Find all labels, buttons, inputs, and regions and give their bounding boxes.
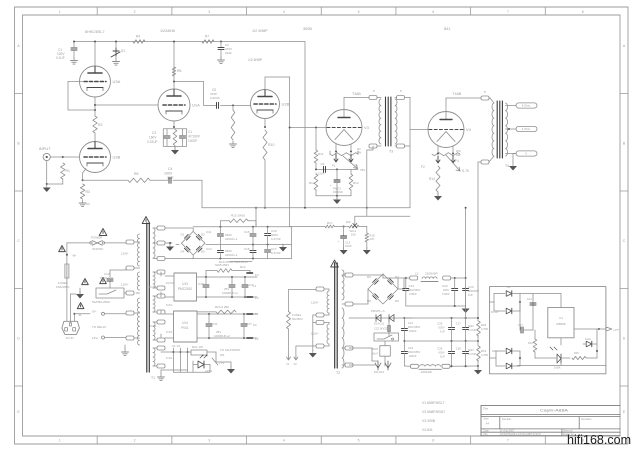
svg-text:C15: C15: [244, 230, 250, 234]
svg-text:160V: 160V: [164, 172, 173, 176]
svg-text:Number: Number: [502, 417, 511, 421]
svg-text:F4: F4: [255, 273, 259, 277]
svg-text:V1: V1: [286, 362, 290, 366]
svg-text:5: 5: [358, 10, 360, 14]
svg-text:47/160V: 47/160V: [188, 135, 201, 139]
svg-text:R13: R13: [353, 181, 359, 185]
svg-text:630V: 630V: [439, 326, 445, 330]
svg-text:C13: C13: [206, 247, 212, 251]
svg-text:1UF: 1UF: [468, 293, 473, 297]
svg-text:0.1UF: 0.1UF: [56, 56, 65, 60]
svg-text:R26: R26: [574, 351, 579, 355]
svg-text:250V-103: 250V-103: [100, 276, 113, 280]
svg-text:5W: 5W: [456, 153, 461, 157]
svg-text:C9: C9: [321, 162, 325, 166]
svg-text:W1: W1: [220, 353, 225, 357]
svg-text:V4.841: V4.841: [422, 428, 433, 432]
svg-text:1/2A6H8: 1/2A6H8: [160, 29, 175, 33]
svg-text:7: 7: [507, 10, 509, 14]
svg-text:INPUT: INPUT: [39, 146, 52, 151]
svg-text:A2: A2: [86, 202, 90, 206]
svg-text:400V/450V: 400V/450V: [408, 351, 421, 354]
svg-text:C1?: C1?: [456, 322, 461, 326]
svg-text:FF-18: FF-18: [491, 310, 498, 314]
svg-text:P041: P041: [181, 326, 189, 330]
svg-text:R5: R5: [134, 172, 139, 176]
svg-text:V2: V2: [294, 362, 298, 366]
svg-text:6H9C/6SL7: 6H9C/6SL7: [85, 30, 105, 34]
svg-text:TO ADJ/16SN7: TO ADJ/16SN7: [220, 348, 241, 352]
svg-text:10K: 10K: [351, 233, 356, 237]
svg-text:R1: R1: [66, 169, 71, 173]
svg-text:0.22UF: 0.22UF: [210, 96, 220, 100]
svg-text:ON/OFF: ON/OFF: [92, 247, 103, 251]
svg-text:470UF: 470UF: [442, 292, 450, 296]
svg-text:+: +: [330, 183, 332, 187]
svg-text:110V-: 110V-: [121, 283, 129, 287]
svg-text:R16: R16: [528, 341, 533, 345]
svg-text:220UF+1: 220UF+1: [225, 253, 238, 257]
svg-text:PR30?+ A: PR30?+ A: [371, 309, 385, 313]
svg-text:D8: D8: [367, 299, 371, 303]
svg-text:300B: 300B: [303, 27, 312, 31]
svg-text:7: 7: [507, 439, 509, 443]
svg-text:R10: R10: [268, 143, 274, 147]
svg-text:P: P: [484, 90, 486, 94]
svg-text:D9: D9: [395, 299, 399, 303]
svg-text:T1: T1: [151, 376, 155, 380]
svg-text:+: +: [338, 239, 340, 243]
svg-text:6.3V-: 6.3V-: [166, 330, 173, 334]
svg-text:Size: Size: [484, 417, 490, 421]
svg-text:110V-: 110V-: [121, 252, 129, 256]
svg-text:78V: 78V: [360, 168, 365, 172]
svg-text:SW5.25#1: SW5.25#1: [215, 263, 229, 267]
svg-text:RB935: RB935: [556, 322, 566, 326]
svg-text:0.47UF: 0.47UF: [468, 353, 477, 356]
svg-text:630V: 630V: [439, 351, 445, 355]
svg-text:1: 1: [59, 439, 61, 443]
svg-text:RM1: RM1: [373, 347, 379, 351]
svg-text:R3: R3: [86, 190, 91, 194]
svg-text:220UF+1: 220UF+1: [225, 237, 238, 241]
svg-text:R12: R12: [309, 181, 315, 185]
svg-text:R15 2W16: R15 2W16: [231, 214, 246, 218]
svg-text:C1: C1: [188, 130, 192, 134]
svg-text:U3A: U3A: [113, 79, 121, 84]
svg-text:D11 D13: D11 D13: [374, 370, 385, 374]
svg-text:D6: D6: [367, 275, 371, 279]
svg-text:R11: R11: [318, 152, 324, 156]
svg-text:R4: R4: [136, 35, 140, 39]
svg-text:3: 3: [208, 10, 210, 14]
svg-text:6.6V-: 6.6V-: [166, 303, 173, 307]
svg-text:-B-: -B-: [78, 313, 82, 317]
svg-text:111A: 111A: [585, 337, 591, 341]
svg-text:4.70R: 4.70R: [481, 353, 488, 357]
svg-text:C26: C26: [437, 347, 443, 351]
svg-text:U1A: U1A: [192, 103, 200, 108]
svg-text:T3: T3: [389, 150, 393, 154]
svg-text:10UF: 10UF: [345, 244, 352, 248]
svg-text:6: 6: [432, 10, 434, 14]
svg-text:450V: 450V: [443, 288, 449, 292]
svg-text:F4: F4: [455, 159, 459, 163]
svg-text:D2: D2: [181, 232, 185, 236]
svg-text:C13: C13: [409, 284, 415, 288]
svg-text:T2: T2: [336, 371, 340, 375]
svg-text:10000UF+2: 10000UF+2: [214, 334, 230, 338]
svg-text:V4: V4: [466, 127, 472, 132]
svg-text:POWER: POWER: [91, 236, 103, 240]
svg-text:1UF: 1UF: [440, 330, 445, 334]
svg-text:222F: 222F: [225, 51, 232, 55]
svg-text:R21 1W: R21 1W: [192, 345, 203, 349]
svg-text:0.22UF: 0.22UF: [147, 140, 158, 144]
svg-text:1/2 6H8P: 1/2 6H8P: [248, 58, 263, 62]
svg-text:C3?: C3?: [246, 322, 252, 326]
svg-text:3: 3: [208, 439, 210, 443]
svg-text:P: P: [373, 89, 375, 93]
svg-text:0V-: 0V-: [92, 310, 97, 314]
svg-text:D5: D5: [201, 249, 205, 253]
svg-text:C11: C11: [206, 230, 212, 234]
svg-text:6.6V-: 6.6V-: [150, 324, 157, 328]
svg-text:5: 5: [358, 439, 360, 443]
svg-text:60m?: 60m?: [372, 352, 379, 356]
svg-text:F2: F2: [255, 337, 259, 341]
svg-text:S-75: S-75: [462, 169, 469, 173]
svg-text:8: 8: [582, 10, 584, 14]
svg-text:R17: R17: [327, 221, 333, 225]
svg-text:V1.6N9P/6SL7: V1.6N9P/6SL7: [422, 401, 445, 405]
svg-text:A4: A4: [486, 422, 490, 426]
svg-text:C22 2KV222: C22 2KV222: [374, 327, 389, 331]
svg-text:Revision: Revision: [581, 417, 592, 421]
svg-text:4: 4: [283, 439, 285, 443]
svg-text:+1??: +1??: [613, 328, 619, 332]
svg-text:400V/450V: 400V/450V: [408, 288, 421, 292]
svg-text:2: 2: [134, 10, 136, 14]
svg-text:110V-: 110V-: [311, 332, 319, 336]
svg-text:4 Ohm: 4 Ohm: [522, 127, 531, 131]
svg-text:10.5V-: 10.5V-: [148, 285, 157, 289]
svg-text:2200H2R: 2200H2R: [421, 370, 432, 374]
svg-text:C3: C3: [152, 131, 156, 135]
svg-text:5W: 5W: [357, 151, 362, 155]
svg-text:1N5A: 1N5A: [554, 366, 561, 370]
svg-text:F1: F1: [332, 164, 336, 168]
svg-text:C15: C15: [244, 247, 250, 251]
svg-text:U14: U14: [182, 321, 188, 325]
svg-text:4.70R: 4.70R: [481, 327, 488, 331]
svg-text:8 Ohm: 8 Ohm: [522, 104, 531, 108]
svg-text:U1: U1: [559, 316, 563, 320]
svg-text:C25: C25: [437, 322, 443, 326]
svg-text:C24: C24: [408, 346, 414, 350]
svg-text:841: 841: [444, 27, 450, 31]
svg-text:D14 D11: D14 D11: [374, 322, 385, 326]
svg-text:4: 4: [283, 10, 285, 14]
svg-text:F4: F4: [253, 323, 257, 327]
svg-text:D1: D1: [121, 49, 125, 53]
svg-text:C14: C14: [527, 297, 532, 301]
svg-text:C28: C28: [456, 347, 461, 351]
svg-text:AC IN: AC IN: [66, 336, 74, 340]
svg-text:C20: C20: [442, 284, 448, 288]
svg-text:0.47UF: 0.47UF: [271, 237, 281, 241]
svg-text:D3: D3: [201, 232, 205, 236]
svg-text:1000P: 1000P: [188, 139, 197, 143]
svg-text:1500UF: 1500UF: [333, 190, 343, 194]
svg-text:6.3V-: 6.3V-: [166, 356, 173, 360]
svg-text:220UF: 220UF: [409, 355, 417, 358]
svg-text:T4AB: T4AB: [453, 92, 462, 96]
svg-text:470UF: 470UF: [409, 292, 417, 296]
svg-text:+7V: +7V: [219, 361, 224, 365]
svg-text:220UF: 220UF: [409, 330, 417, 333]
svg-text:L2: L2: [415, 272, 419, 276]
svg-text:+1: +1: [253, 284, 257, 288]
svg-text:F1: F1: [255, 312, 259, 316]
svg-text:R14: R14: [429, 177, 435, 181]
svg-text:W2: W2: [346, 220, 351, 224]
svg-text:D5: D5: [507, 285, 511, 289]
svg-text:160V: 160V: [149, 136, 157, 140]
svg-text:F2: F2: [421, 165, 425, 169]
svg-text:1UF: 1UF: [440, 355, 445, 359]
svg-text:TO RELAY: TO RELAY: [92, 325, 107, 329]
svg-text:T4: T4: [505, 164, 509, 168]
svg-text:V3.300B: V3.300B: [422, 419, 436, 423]
svg-text:P: P: [400, 89, 402, 93]
svg-text:C1?: C1?: [518, 323, 523, 327]
svg-text:D7: D7: [395, 275, 399, 279]
svg-text:D4: D4: [181, 249, 185, 253]
svg-text:C18: C18: [198, 282, 204, 286]
svg-text:47K: 47K: [369, 237, 374, 241]
svg-text:R12: R12: [240, 265, 246, 269]
svg-text:V1 V2: V1 V2: [172, 344, 181, 348]
svg-text:1UF: 1UF: [167, 176, 174, 180]
svg-text:hifi168.com: hifi168.com: [567, 432, 631, 447]
svg-text:R18: R18: [481, 323, 487, 327]
svg-text:600V: 600V: [468, 349, 474, 352]
svg-text:0.47UF: 0.47UF: [271, 251, 281, 255]
svg-text:600V: 600V: [468, 325, 474, 328]
svg-text:2: 2: [134, 439, 136, 443]
svg-text:6: 6: [432, 439, 434, 443]
svg-text:U2B: U2B: [282, 102, 290, 107]
svg-text:F3: F3: [255, 296, 259, 300]
svg-text:C31: C31: [212, 322, 218, 326]
svg-text:5A/250V: 5A/250V: [292, 317, 303, 321]
svg-text:Title: Title: [483, 407, 489, 411]
svg-text:U13: U13: [182, 282, 188, 286]
svg-text:V2.6N8P/6SN7: V2.6N8P/6SN7: [422, 410, 445, 414]
svg-text:R6: R6: [177, 69, 182, 73]
svg-text:R7: R7: [205, 35, 209, 39]
svg-text:U3B: U3B: [113, 155, 121, 160]
svg-text:0.47UF: 0.47UF: [468, 329, 477, 332]
svg-text:10000UF+1: 10000UF+1: [222, 291, 238, 295]
svg-text:V3: V3: [364, 125, 370, 130]
svg-text:C23: C23: [468, 285, 474, 289]
svg-text:T3AB: T3AB: [352, 92, 361, 96]
svg-text:R2: R2: [98, 123, 103, 127]
svg-text:110V-: 110V-: [311, 301, 319, 305]
svg-text:-B+: -B+: [72, 254, 77, 258]
svg-text:RD: RD: [492, 349, 496, 353]
svg-text:1: 1: [59, 10, 61, 14]
svg-text:F5A/250V: F5A/250V: [56, 285, 69, 289]
svg-text:1/2 6H8P: 1/2 6H8P: [252, 29, 268, 33]
svg-text:Cayin-A88A: Cayin-A88A: [540, 408, 568, 413]
svg-text:R19: R19: [481, 349, 487, 353]
svg-text:PMC2510: PMC2510: [178, 287, 192, 291]
svg-text:400V/450V: 400V/450V: [408, 326, 421, 329]
svg-text:2200H2R: 2200H2R: [425, 272, 439, 276]
svg-text:10.5V-: 10.5V-: [166, 281, 175, 285]
svg-text:C4: C4: [168, 167, 173, 171]
svg-text:5A/N5A 2500-: 5A/N5A 2500-: [92, 300, 111, 304]
svg-text:C14: C14: [408, 321, 414, 325]
svg-text:12V-: 12V-: [92, 336, 98, 340]
svg-text:R23 0.25#: R23 0.25#: [215, 305, 229, 309]
